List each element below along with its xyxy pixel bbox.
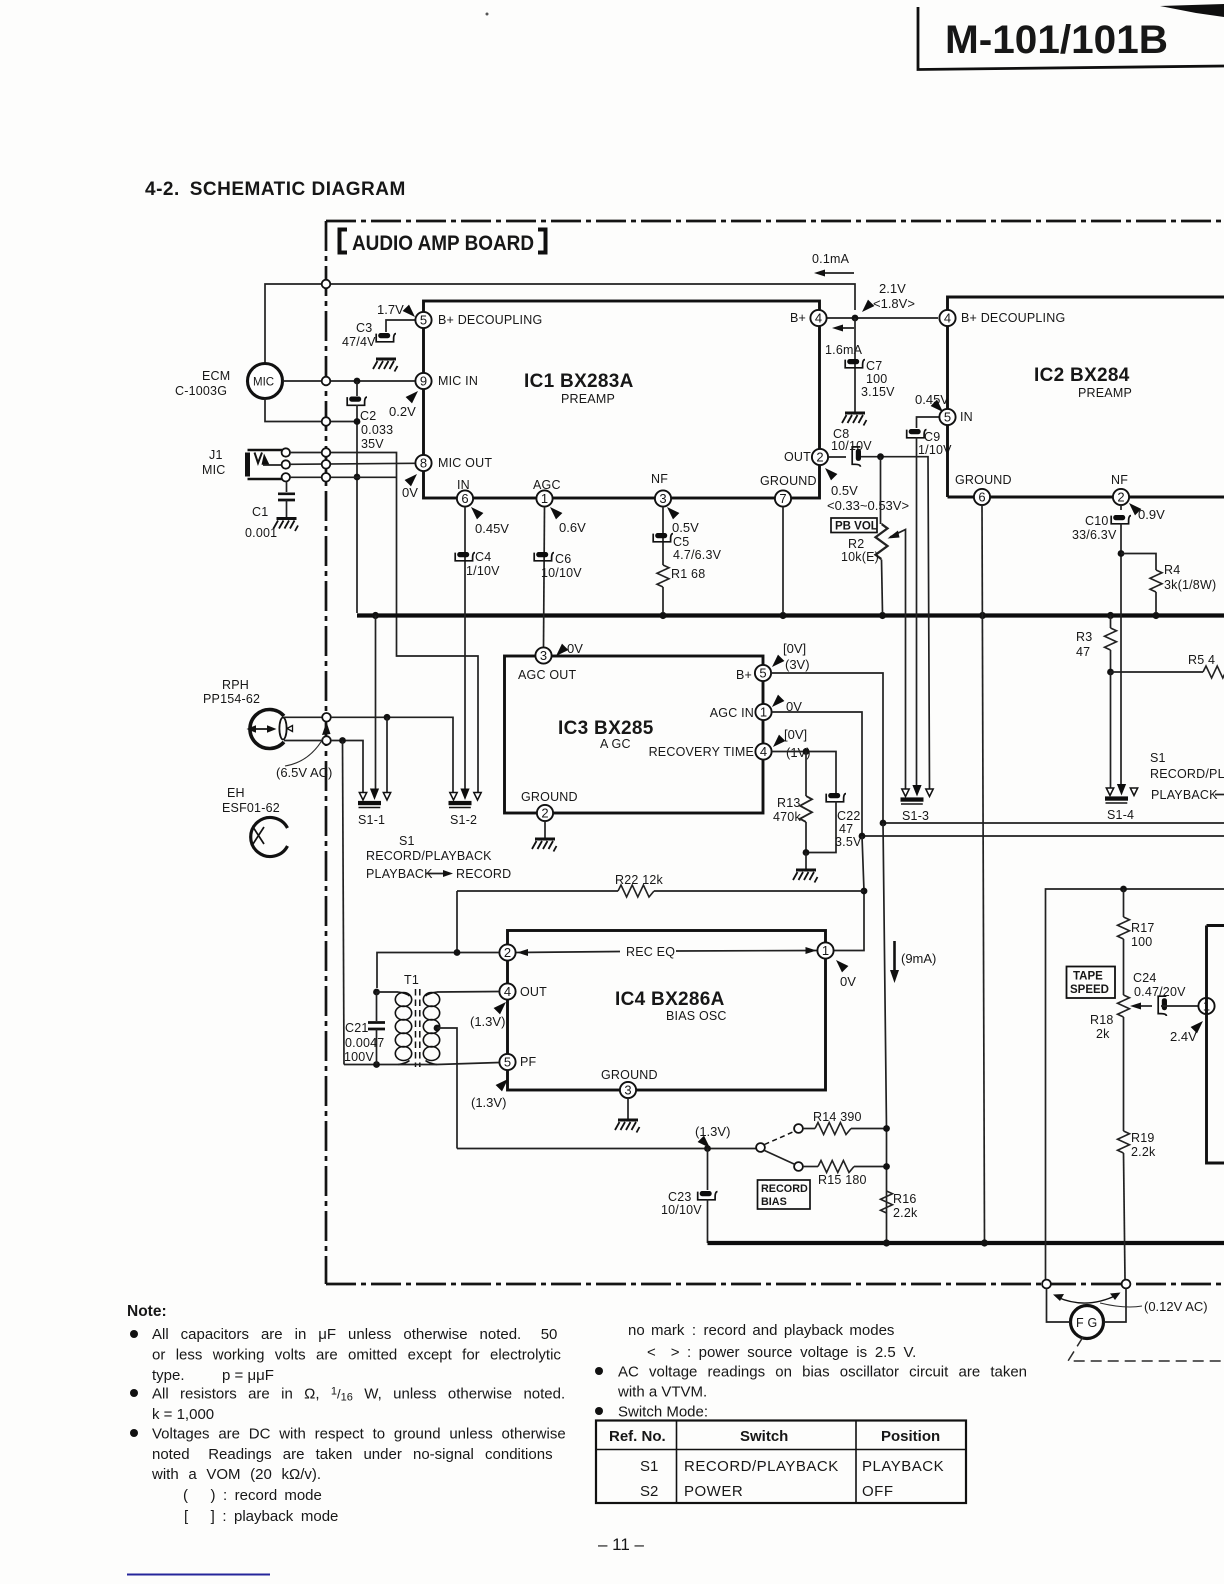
svg-text:SPEED: SPEED bbox=[1070, 984, 1109, 996]
svg-text:6: 6 bbox=[461, 491, 468, 506]
capacitor C2 in vertical line bbox=[356, 381, 358, 396]
resistor R3 47 bbox=[1110, 616, 1112, 629]
svg-text:C-1003G: C-1003G bbox=[175, 384, 227, 398]
solid throw to R15 contact bbox=[765, 1151, 795, 1165]
note bullet switch mode bbox=[595, 1407, 603, 1415]
capacitor C24 0.47/20V bbox=[1158, 996, 1167, 1016]
junction dot sleeve node bbox=[354, 474, 361, 481]
op-amp IC3 BX285 box bbox=[505, 656, 764, 813]
svg-text:PP154-62: PP154-62 bbox=[203, 692, 260, 706]
pin 1 bbox=[536, 490, 552, 506]
switch mode table bbox=[596, 1421, 966, 1504]
svg-text:with a VOM (20 kΩ/v).: with a VOM (20 kΩ/v). bbox=[151, 1466, 321, 1483]
junction dot R3 bottom bbox=[1107, 669, 1114, 676]
ground under C3 bbox=[373, 359, 398, 372]
svg-text:5: 5 bbox=[420, 313, 427, 328]
B+ rail wire from MIC top through border to IC pins bbox=[265, 284, 855, 364]
svg-text:0.2V: 0.2V bbox=[389, 404, 416, 419]
note bullet 2 bbox=[130, 1389, 138, 1397]
svg-text:IC2 BX284: IC2 BX284 bbox=[1034, 365, 1130, 386]
svg-text:Switch Mode:: Switch Mode: bbox=[618, 1404, 708, 1421]
IC4 pin 4 bbox=[499, 983, 515, 999]
svg-text:R16: R16 bbox=[893, 1192, 917, 1206]
bottom-left rule bbox=[127, 1574, 270, 1576]
svg-text:0V: 0V bbox=[567, 641, 583, 656]
svg-text:A GC: A GC bbox=[600, 737, 631, 751]
voltage 0V at pin1 bbox=[772, 695, 784, 707]
svg-text:IN: IN bbox=[457, 478, 470, 492]
voltage (1.3V) at pin4 bbox=[494, 1002, 506, 1014]
wire B+ node down to C7 bbox=[854, 318, 856, 412]
svg-text:OFF: OFF bbox=[862, 1483, 894, 1500]
svg-text:PREAMP: PREAMP bbox=[1078, 386, 1132, 400]
RECORD BIAS box bbox=[758, 1180, 811, 1209]
svg-text:C2: C2 bbox=[360, 409, 376, 423]
switch S1-1 bbox=[358, 789, 391, 808]
long rail y=836 to right edge bbox=[862, 835, 1224, 837]
board border dash-dot top bbox=[326, 220, 1224, 223]
svg-text:(3V): (3V) bbox=[785, 657, 810, 672]
junction dot bias node bbox=[704, 1145, 711, 1152]
svg-text:[ ] : playback mode: [ ] : playback mode bbox=[184, 1508, 338, 1525]
border terminal circle tip bbox=[322, 448, 331, 457]
svg-text:5: 5 bbox=[759, 666, 766, 681]
board border dash-dot left bbox=[325, 221, 328, 1284]
svg-text:RECORD/PLA: RECORD/PLA bbox=[1150, 767, 1224, 781]
svg-text:0.9V: 0.9V bbox=[1138, 507, 1165, 522]
title block corner wedge bbox=[1160, 4, 1224, 17]
svg-text:R22 12k: R22 12k bbox=[615, 873, 664, 887]
svg-text:0V: 0V bbox=[840, 974, 856, 989]
potentiometer R18 2k bbox=[1118, 995, 1130, 1017]
svg-text:C6: C6 bbox=[555, 552, 571, 566]
svg-text:S1: S1 bbox=[640, 1458, 658, 1475]
svg-text:0.033: 0.033 bbox=[361, 423, 393, 437]
voltage 0.2V at pin 9 bbox=[406, 391, 418, 403]
svg-text:47: 47 bbox=[1076, 645, 1090, 659]
voltage 0V at IC3 pin3 bbox=[556, 644, 568, 656]
svg-text:OUT: OUT bbox=[784, 450, 811, 464]
svg-text:RECORD/PLAYBACK: RECORD/PLAYBACK bbox=[366, 849, 492, 863]
svg-text:2.2k: 2.2k bbox=[893, 1206, 918, 1220]
voltage 0V at pin 8 bbox=[405, 474, 417, 486]
junction dot pin2 wire bbox=[454, 949, 461, 956]
svg-text:R19: R19 bbox=[1131, 1131, 1155, 1145]
right-edge IC box partial bbox=[1207, 926, 1224, 1164]
wire IC2 pin2 down through C10 bbox=[1120, 505, 1122, 510]
capacitor C1 under jack bbox=[286, 482, 288, 493]
wire MIC to pin 9 bbox=[283, 380, 416, 382]
wire pin3 down through C5 and R1 to bus bbox=[662, 507, 664, 565]
svg-text:AGC IN: AGC IN bbox=[710, 706, 754, 720]
microphone MIC ECM C-1003G bbox=[248, 364, 283, 399]
junction dot C2 bottom bbox=[354, 418, 361, 425]
junction dot C21 bottom bbox=[373, 1061, 380, 1068]
svg-text:All resistors are in Ω, 1/16 W: All resistors are in Ω, 1/16 W, unless o… bbox=[152, 1386, 565, 1404]
ground bus heavy wire bbox=[357, 613, 1224, 617]
long rail y=823 to right edge bbox=[883, 822, 1224, 824]
jack contact circles bbox=[282, 448, 290, 456]
op-amp IC2 BX284 box bbox=[948, 297, 1224, 497]
junction dot C2 top bbox=[354, 378, 361, 385]
svg-text:4: 4 bbox=[760, 744, 767, 759]
wire R3 junction to R5 bbox=[1111, 671, 1204, 673]
svg-text:PF: PF bbox=[520, 1055, 537, 1069]
junction dot S1-1 right feed bbox=[384, 714, 391, 721]
svg-text:R13: R13 bbox=[777, 796, 801, 810]
svg-text:RECOVERY TIME: RECOVERY TIME bbox=[649, 745, 754, 759]
svg-text:5: 5 bbox=[504, 1055, 511, 1070]
svg-text:1.7V: 1.7V bbox=[377, 302, 404, 317]
svg-text:PLAYBACK: PLAYBACK bbox=[366, 867, 433, 881]
ground under R13 bbox=[805, 853, 807, 870]
T1 secondary center tap bbox=[434, 1025, 441, 1032]
svg-text:– 11 –: – 11 – bbox=[598, 1535, 645, 1554]
wire B+ rail down to R14/R16 chain bbox=[883, 823, 887, 1243]
svg-text:or less working volts are omit: or less working volts are omitted except… bbox=[152, 1347, 561, 1364]
voltage 0.5V at pin 3 bbox=[667, 507, 679, 519]
wire RPH lower to border bbox=[284, 740, 322, 742]
svg-text:2.1V: 2.1V bbox=[879, 281, 906, 296]
wire junction down to T1 bottom bbox=[343, 741, 345, 1065]
wire head lower rail bbox=[331, 741, 363, 794]
svg-text:S2: S2 bbox=[640, 1483, 658, 1500]
svg-text:no mark : record and playback: no mark : record and playback modes bbox=[628, 1322, 894, 1339]
wire pin6 down through C4 to S1-2 bbox=[464, 507, 466, 789]
wire T1 secondary top to pin4 bbox=[437, 991, 499, 994]
svg-text:10/10V: 10/10V bbox=[541, 566, 582, 580]
capacitor C4 bbox=[455, 552, 475, 561]
svg-text:AGC: AGC bbox=[533, 478, 561, 492]
resistor R14 390 bbox=[803, 1128, 815, 1130]
IC3 pin 1 bbox=[755, 704, 771, 720]
svg-text:IC3 BX285: IC3 BX285 bbox=[558, 718, 654, 739]
svg-text:R18: R18 bbox=[1090, 1013, 1114, 1027]
svg-text:AGC OUT: AGC OUT bbox=[518, 668, 577, 682]
junction dot lower rail bbox=[339, 737, 346, 744]
IC3 pin 5 bbox=[755, 665, 771, 681]
svg-text:POWER: POWER bbox=[684, 1483, 743, 1500]
wire T1 bottom common bbox=[344, 1063, 499, 1065]
svg-text:noted Readings are taken unde: noted Readings are taken under no-signal… bbox=[152, 1446, 553, 1463]
svg-text:MIC IN: MIC IN bbox=[438, 374, 478, 388]
svg-text:0.001: 0.001 bbox=[245, 526, 277, 540]
svg-text:7: 7 bbox=[779, 491, 786, 506]
svg-text:F G: F G bbox=[1076, 1316, 1097, 1330]
svg-text:9: 9 bbox=[420, 374, 427, 389]
wire jack tip contact to the right, down at 396 bbox=[290, 453, 478, 794]
resistor R17 100 bbox=[1123, 889, 1125, 917]
svg-text:10k(E): 10k(E) bbox=[841, 550, 879, 564]
wire IC3 pin5 B+ right then down bbox=[771, 673, 883, 823]
wire jack sleeve contact bbox=[290, 476, 397, 478]
junction dot R17 top bbox=[1120, 886, 1127, 893]
svg-text:C9: C9 bbox=[924, 430, 940, 444]
svg-text:S1-3: S1-3 bbox=[902, 809, 929, 823]
svg-text:with a VTVM.: with a VTVM. bbox=[617, 1384, 707, 1401]
svg-text:Position: Position bbox=[881, 1428, 940, 1445]
wire IC2 pin5 left down through C9 bbox=[917, 417, 939, 428]
svg-text:( ) : record mode: ( ) : record mode bbox=[183, 1487, 322, 1504]
TAPE SPEED box bbox=[1067, 967, 1116, 999]
svg-text:R5 4: R5 4 bbox=[1188, 653, 1215, 667]
svg-text:(1.3V): (1.3V) bbox=[471, 1095, 506, 1110]
capacitor C8 in horizontal wire bbox=[852, 447, 861, 467]
dashed throw to R14 contact bbox=[765, 1132, 795, 1145]
svg-text:MIC: MIC bbox=[202, 463, 226, 477]
svg-text:47/4V: 47/4V bbox=[342, 335, 376, 349]
svg-text:NF: NF bbox=[651, 472, 668, 486]
junction dots on ground bus bbox=[372, 612, 379, 619]
wire IC3 pin4 recovery time bbox=[772, 752, 836, 794]
svg-text:33/6.3V: 33/6.3V bbox=[1072, 528, 1117, 542]
svg-text:2.2k: 2.2k bbox=[1131, 1145, 1156, 1159]
svg-text:2k: 2k bbox=[1096, 1027, 1110, 1041]
svg-text:Switch: Switch bbox=[740, 1428, 788, 1445]
svg-text:C1: C1 bbox=[252, 505, 268, 519]
wire IC2 pin6 long down to bottom rail bbox=[982, 505, 985, 1243]
svg-text:C24: C24 bbox=[1133, 971, 1157, 985]
wire R22 left end down to IC4 pin2 wire bbox=[456, 891, 458, 953]
svg-text:RPH: RPH bbox=[222, 678, 249, 692]
svg-text:S1: S1 bbox=[399, 834, 415, 848]
resistor R16 2.2k bbox=[881, 1191, 893, 1213]
svg-text:2: 2 bbox=[541, 806, 548, 821]
border terminal circle B+ bbox=[322, 280, 331, 289]
svg-text:5: 5 bbox=[944, 410, 951, 425]
voltage (1.3V) at pin5 bbox=[496, 1079, 508, 1091]
junction dot B+ node bbox=[852, 315, 859, 322]
pin 5 bbox=[415, 312, 431, 328]
svg-text:3.5V: 3.5V bbox=[835, 835, 862, 849]
voltage (0.12V AC) curved arrow bbox=[1057, 1295, 1117, 1303]
wire AGC IN line down to R22 and IC4 pin1 bbox=[834, 836, 864, 951]
svg-text:100V: 100V bbox=[344, 1050, 374, 1064]
svg-text:PLAYBACK: PLAYBACK bbox=[862, 1458, 944, 1475]
svg-text:C23: C23 bbox=[668, 1190, 692, 1204]
resistor R19 2.2k bbox=[1118, 1131, 1130, 1153]
play/record head RPH PP154-62 bbox=[250, 709, 284, 748]
junction dots bottom rail bbox=[883, 1239, 890, 1246]
svg-text:1: 1 bbox=[541, 491, 548, 506]
pin 7 bbox=[775, 490, 791, 506]
voltage (6.5V AC) with arrow and leader bbox=[322, 722, 331, 735]
svg-text:B+ DECOUPLING: B+ DECOUPLING bbox=[438, 313, 542, 327]
capacitor C10 bbox=[1111, 515, 1131, 524]
erase head EH ESF01-62 bbox=[251, 818, 288, 857]
resistor R13 470k bbox=[805, 752, 807, 797]
wire pin2 OUT through C8 bbox=[828, 456, 846, 458]
wire MIC bottom bbox=[265, 399, 357, 422]
ground under C7 bbox=[842, 413, 867, 426]
title block frame bbox=[918, 7, 1224, 70]
voltage 0.5V at pin 2 bbox=[825, 468, 837, 480]
wire IC3 pin1 AGC IN right then down bbox=[772, 712, 862, 836]
svg-text:3: 3 bbox=[624, 1083, 631, 1098]
current label 1.6mA with arrow bbox=[836, 327, 854, 329]
svg-text:1: 1 bbox=[822, 943, 829, 958]
pin 4 bbox=[810, 310, 826, 326]
svg-text:AUDIO AMP BOARD: AUDIO AMP BOARD bbox=[352, 231, 534, 255]
op-amp IC4 BX286A box bbox=[508, 931, 826, 1091]
svg-text:[0V]: [0V] bbox=[784, 727, 807, 742]
svg-text:R17: R17 bbox=[1131, 921, 1155, 935]
svg-text:C10: C10 bbox=[1085, 514, 1109, 528]
svg-text:PREAMP: PREAMP bbox=[561, 392, 615, 406]
svg-text:47: 47 bbox=[839, 822, 853, 836]
svg-text:1.6mA: 1.6mA bbox=[825, 343, 863, 357]
svg-text:6: 6 bbox=[978, 490, 985, 505]
IC4 pin 1 bbox=[817, 942, 833, 958]
svg-text:(1.3V): (1.3V) bbox=[470, 1014, 505, 1029]
svg-text:RECORD/PLAYBACK: RECORD/PLAYBACK bbox=[684, 1458, 839, 1475]
svg-text:S1-1: S1-1 bbox=[358, 813, 385, 827]
wire jack ring contact to pin 8 bbox=[290, 463, 415, 464]
capacitor C9 bbox=[907, 429, 927, 438]
svg-text:T1: T1 bbox=[404, 973, 419, 987]
border terminal circles FG bbox=[1042, 1280, 1051, 1289]
svg-text:100: 100 bbox=[1131, 935, 1152, 949]
svg-text:C21: C21 bbox=[345, 1021, 369, 1035]
capacitor C5 bbox=[653, 533, 673, 542]
svg-text:Note:: Note: bbox=[127, 1303, 167, 1320]
REC EQ line with arrows bbox=[516, 951, 817, 953]
svg-text:0.1mA: 0.1mA bbox=[812, 252, 850, 266]
junction dot C10 bottom bbox=[1118, 550, 1125, 557]
svg-text:OUT: OUT bbox=[520, 985, 547, 999]
svg-text:R4: R4 bbox=[1164, 563, 1180, 577]
IC2 pin 2 bbox=[1113, 489, 1129, 505]
lower-right board bracket bbox=[1046, 889, 1224, 1279]
svg-text:2: 2 bbox=[816, 450, 823, 465]
svg-text:MIC: MIC bbox=[253, 377, 274, 389]
wire pin1 down through C6 to IC3 pin3 bbox=[544, 507, 545, 647]
junction dot R15 right bbox=[883, 1163, 890, 1170]
junction dot T1 primary top bbox=[373, 989, 380, 996]
svg-text:(6.5V AC): (6.5V AC) bbox=[276, 765, 332, 780]
voltage 0V at IC4 pin1 bbox=[836, 960, 848, 972]
svg-text:4: 4 bbox=[504, 984, 511, 999]
svg-text:B+: B+ bbox=[736, 668, 752, 682]
pin 8 bbox=[415, 455, 431, 471]
svg-text:IC1 BX283A: IC1 BX283A bbox=[524, 371, 634, 392]
svg-text:MIC OUT: MIC OUT bbox=[438, 456, 492, 470]
wire pin7 down to bus bbox=[782, 507, 784, 613]
svg-text:<1.8V>: <1.8V> bbox=[873, 296, 915, 311]
svg-text:k = 1,000: k = 1,000 bbox=[152, 1406, 214, 1423]
svg-text:type. p = μμF: type. p = μμF bbox=[152, 1367, 274, 1384]
svg-text:3.15V: 3.15V bbox=[861, 385, 895, 399]
svg-text:10/10V: 10/10V bbox=[831, 439, 872, 453]
svg-text:C7: C7 bbox=[866, 359, 882, 373]
capacitor C3 bbox=[376, 333, 396, 342]
svg-text:R14 390: R14 390 bbox=[813, 1110, 862, 1124]
svg-text:GROUND: GROUND bbox=[760, 474, 817, 488]
svg-text:8: 8 bbox=[420, 456, 427, 471]
wire RPH upper to border bbox=[284, 716, 322, 718]
board border dash-dot bottom bbox=[326, 1283, 1224, 1286]
svg-text:PLAYBACK: PLAYBACK bbox=[1151, 788, 1218, 802]
svg-text:BIAS: BIAS bbox=[761, 1196, 787, 1208]
note bullet 1 bbox=[130, 1330, 138, 1338]
pin 9 bbox=[415, 373, 431, 389]
svg-text:IC4 BX286A: IC4 BX286A bbox=[615, 989, 725, 1010]
wire bus to S1-1 middle bbox=[375, 616, 377, 790]
IC3 pin 4 bbox=[755, 743, 771, 759]
svg-text:S1-2: S1-2 bbox=[450, 813, 477, 827]
border terminal circles head wires bbox=[322, 713, 331, 722]
svg-text:S1-4: S1-4 bbox=[1107, 808, 1134, 822]
svg-text:0.5V: 0.5V bbox=[672, 520, 699, 535]
motor FG bbox=[1071, 1306, 1104, 1339]
switch S1-4 bbox=[1105, 784, 1138, 803]
junction dot R22 right end bbox=[861, 888, 868, 895]
PB VOL box bbox=[831, 518, 877, 533]
svg-text:<0.33~0.53V>: <0.33~0.53V> bbox=[827, 498, 909, 513]
svg-text:R1 68: R1 68 bbox=[671, 567, 705, 581]
svg-text:TAPE: TAPE bbox=[1073, 971, 1103, 983]
voltage 2.4V at pin bbox=[1191, 1021, 1203, 1033]
resistor R5 bbox=[1203, 666, 1224, 678]
svg-text:0.5V: 0.5V bbox=[831, 483, 858, 498]
wire S1-1 right feed down bbox=[386, 717, 388, 793]
note bullet AC bbox=[595, 1367, 603, 1375]
board title bbox=[340, 230, 348, 253]
border terminal circle ring bbox=[322, 460, 331, 469]
svg-text:4: 4 bbox=[815, 311, 822, 326]
svg-text:R2: R2 bbox=[848, 537, 864, 551]
resistor R15 180 bbox=[803, 1166, 818, 1168]
wire head upper rail to S1-1/S1-2 bbox=[331, 717, 453, 793]
switch S2? record bias selector common contact bbox=[756, 1143, 765, 1152]
svg-text:BIAS OSC: BIAS OSC bbox=[666, 1009, 727, 1023]
junction dot C8 out bbox=[877, 453, 884, 460]
svg-text:Ref. No.: Ref. No. bbox=[609, 1428, 666, 1445]
svg-text:0.47/20V: 0.47/20V bbox=[1134, 985, 1186, 999]
ground under IC4 pin3 bbox=[627, 1098, 629, 1119]
wire pin5 to C3 bbox=[386, 320, 415, 332]
svg-text:100: 100 bbox=[866, 372, 887, 386]
IC2 pin 6 bbox=[974, 489, 990, 505]
junction dot R14 right bbox=[883, 1125, 890, 1132]
junction dot rail 836 bbox=[859, 833, 866, 840]
potentiometer R2 10k(E) bbox=[880, 457, 882, 524]
svg-text:GROUND: GROUND bbox=[601, 1068, 658, 1082]
pin 1 of right-edge IC bbox=[1198, 998, 1214, 1014]
wire IC4 pin2 left to T1 bbox=[377, 953, 499, 989]
wire center tap line to bias node bbox=[457, 1148, 756, 1150]
border terminal circle mic+ bbox=[322, 377, 331, 386]
svg-text:(0.12V AC): (0.12V AC) bbox=[1144, 1299, 1208, 1314]
svg-text:NF: NF bbox=[1111, 473, 1128, 487]
svg-text:RECORD: RECORD bbox=[456, 867, 511, 881]
svg-text:C5: C5 bbox=[673, 535, 689, 549]
svg-text:R3: R3 bbox=[1076, 630, 1092, 644]
border terminal circle sleeve bbox=[322, 473, 331, 482]
junction dot R13 top bbox=[803, 748, 810, 755]
svg-text:4.7/6.3V: 4.7/6.3V bbox=[673, 548, 722, 562]
svg-text:All capacitors are in μF unles: All capacitors are in μF unless otherwis… bbox=[152, 1326, 557, 1343]
IC3 pin 2 bbox=[537, 805, 553, 821]
svg-text:10/10V: 10/10V bbox=[661, 1203, 702, 1217]
note bullet 3 bbox=[130, 1429, 138, 1437]
resistor R1 68 bbox=[657, 565, 669, 587]
voltage 0.9V at IC2 pin2 bbox=[1129, 503, 1141, 515]
capacitor C7 bbox=[845, 359, 865, 368]
jack J1 MIC body bbox=[245, 453, 250, 477]
svg-text:0V: 0V bbox=[402, 485, 418, 500]
voltage 0.6V at pin 1 bbox=[550, 507, 562, 519]
